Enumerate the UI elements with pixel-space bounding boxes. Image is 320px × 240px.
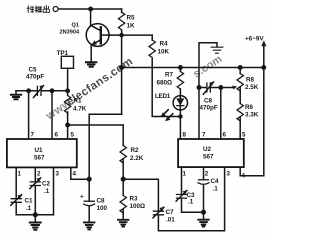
svg-text:R7: R7 <box>165 72 174 79</box>
wire: U2 pin 7 up to ground <box>199 43 217 139</box>
svg-text:3: 3 <box>227 171 231 178</box>
svg-text:C8: C8 <box>97 198 106 205</box>
node: R8 top on rail <box>239 66 242 69</box>
node: pin6 tap on C8 wire <box>219 86 222 89</box>
svg-text:4: 4 <box>73 171 77 178</box>
node: R7 top on rail <box>179 66 182 69</box>
wire: U2 pin 1 drop <box>181 167 183 194</box>
wire: +V rail <box>122 67 264 69</box>
svg-text:R5: R5 <box>127 15 136 22</box>
resistor R4 <box>149 35 155 59</box>
svg-text:6: 6 <box>223 132 227 139</box>
node: R1 bottom / pin5 junction <box>66 123 69 126</box>
svg-text:+6~9V: +6~9V <box>245 36 264 43</box>
ground (U1 bypass) <box>30 223 41 230</box>
wire: emitter drop <box>90 46 92 62</box>
wire: C2 bottom to ground <box>34 186 36 222</box>
node: pin4/C8 junction <box>87 177 91 181</box>
svg-text:.1: .1 <box>26 205 32 212</box>
svg-text:470pF: 470pF <box>200 105 218 112</box>
wire: C5 net right <box>42 90 68 92</box>
IC U1 567 <box>7 139 77 167</box>
svg-text:2N3904: 2N3904 <box>60 30 80 36</box>
capacitor C5 470pF (variable) <box>34 86 44 98</box>
svg-text:C2: C2 <box>42 181 51 188</box>
svg-text:R8: R8 <box>246 77 255 84</box>
svg-text:2: 2 <box>205 171 209 178</box>
terminal: low output (低输出) <box>27 6 58 13</box>
wire: output line to R5 <box>58 8 121 10</box>
svg-text:R3: R3 <box>130 196 139 203</box>
wire: horizontal junction line y=125 <box>68 124 124 126</box>
svg-text:R4: R4 <box>160 41 169 48</box>
resistor R7 680ohm <box>177 68 183 96</box>
svg-text:7: 7 <box>31 132 35 139</box>
wire: node down to rail <box>121 35 123 114</box>
svg-text:10K: 10K <box>158 49 170 56</box>
wire: feeder down to U1 pin4 level <box>88 125 90 201</box>
capacitor C1 .1 (variable) <box>11 195 22 206</box>
node: C3/C4 ground junction <box>202 210 206 214</box>
svg-text:LED1: LED1 <box>155 93 171 100</box>
wire: TP1 to C5 net <box>67 68 69 91</box>
svg-text:6: 6 <box>55 132 59 139</box>
ground (R3 bottom) <box>118 220 128 227</box>
svg-text:C8: C8 <box>204 98 213 105</box>
wire: ground bus <box>16 214 53 216</box>
svg-text:5: 5 <box>71 132 75 139</box>
wire: down to U1 pin 6 <box>51 91 53 139</box>
transistor Q1 2N3904 <box>86 24 110 47</box>
svg-text:5: 5 <box>242 132 246 139</box>
wire: U1 pin 3 to ground bus <box>53 167 55 214</box>
wire: R4 bottom down across rail to pin8 net <box>152 59 180 117</box>
resistor R5 <box>118 9 124 35</box>
svg-text:.1: .1 <box>44 188 50 195</box>
wire: U2 pin 4 loop to +V <box>240 68 264 176</box>
svg-text:1: 1 <box>183 171 187 178</box>
node: pin7 tap <box>27 89 30 92</box>
node: rail right end <box>262 66 265 69</box>
node: base/R5/R4 junction <box>120 34 123 37</box>
wire: collector drop <box>90 9 92 25</box>
wire: R8 to R6 <box>239 88 241 104</box>
node: pin8/R4 junction <box>179 115 182 118</box>
svg-text:3.3K: 3.3K <box>245 112 259 119</box>
wire: down to U2 pin 6 <box>220 88 222 140</box>
svg-text:2.5K: 2.5K <box>245 84 259 91</box>
node: R1 top / TP1 junction <box>66 89 69 92</box>
wire: to C8 cap <box>199 87 206 89</box>
capacitor C3 .1 (variable) <box>176 191 187 202</box>
svg-text:1K: 1K <box>127 23 136 30</box>
wire: junction right to C7 <box>123 179 158 211</box>
svg-text:470pF: 470pF <box>26 74 44 81</box>
svg-text:Q1: Q1 <box>72 23 79 29</box>
svg-text:567: 567 <box>203 154 214 161</box>
node: ground bus junction <box>34 213 38 217</box>
wire: U1 pin 1 drop <box>15 167 17 198</box>
capacitor C8 100 (electrolytic) <box>84 201 95 206</box>
resistor R3 100ohm <box>120 179 126 219</box>
svg-text:1: 1 <box>18 171 22 178</box>
capacitor C7 .01 (variable) <box>153 207 164 218</box>
svg-text:8: 8 <box>183 132 187 139</box>
svg-text:.01: .01 <box>166 217 175 224</box>
svg-text:.1: .1 <box>188 199 194 206</box>
svg-text:+: + <box>80 194 84 201</box>
wire: jog from rail-node down-left to pin4 feeder <box>89 114 121 125</box>
wire: base to node <box>110 34 152 36</box>
ground (U2 pin2) <box>198 220 208 227</box>
capacitor C4 .1 <box>198 180 209 185</box>
ground (C8 bottom) <box>84 222 94 229</box>
resistor R6 3.3K <box>237 104 243 140</box>
svg-text:C5: C5 <box>29 67 38 74</box>
svg-text:680Ω: 680Ω <box>157 80 173 87</box>
svg-text:7: 7 <box>202 132 206 139</box>
node: R2/R3/C7 junction <box>121 177 125 181</box>
wire: U1 pin 4 to feeder <box>71 167 89 179</box>
wire: C1 bottom to ground bus <box>15 203 17 215</box>
svg-text:4.7K: 4.7K <box>73 106 87 113</box>
svg-text:R2: R2 <box>131 147 140 154</box>
wire: C8 bottom <box>88 206 90 222</box>
wire: U1 pin 2 drop <box>34 167 36 181</box>
node: pin6 tap <box>50 89 53 92</box>
svg-text:2.2K: 2.2K <box>130 155 144 162</box>
LED LED1 <box>161 96 187 121</box>
IC U2 567 <box>178 139 244 167</box>
svg-text:TP1: TP1 <box>57 50 69 57</box>
wire: C4 bottom to ground node <box>203 184 205 219</box>
capacitor C2 .1 (variable) <box>30 178 41 189</box>
test point TP1 <box>61 56 73 68</box>
svg-text:R6: R6 <box>245 104 254 111</box>
svg-text:C7: C7 <box>166 209 175 216</box>
supply +6~9V arrow <box>262 41 266 68</box>
ground (emitter) <box>86 62 96 66</box>
svg-text:100Ω: 100Ω <box>130 203 146 210</box>
svg-text:U2: U2 <box>203 146 212 153</box>
svg-text:C4: C4 <box>211 178 220 185</box>
wire: down to U1 pin 7 <box>28 91 30 139</box>
svg-text:U1: U1 <box>35 147 44 154</box>
wire: C3 bottom to pin2 node <box>182 198 204 212</box>
svg-text:C1: C1 <box>25 198 34 205</box>
svg-text:3: 3 <box>56 171 60 178</box>
svg-text:100: 100 <box>97 205 108 212</box>
svg-text:R1: R1 <box>74 98 83 105</box>
wire: C5 net left <box>16 90 37 92</box>
node: C8470 left junction <box>197 86 200 89</box>
resistor R1 4.7K <box>64 91 70 139</box>
wire: C8 right with wiper arrow into R8 <box>211 86 236 89</box>
svg-text:567: 567 <box>34 155 45 162</box>
wire: U2 pin 2 drop <box>203 167 205 180</box>
svg-text:.1: .1 <box>213 186 219 193</box>
resistor R2 2.2K <box>120 125 126 179</box>
ground (C5 left) <box>11 91 21 99</box>
wire: C7 bottom to U2 pin 3 <box>158 167 224 231</box>
wire: LED to U2 pin 8 <box>179 110 181 139</box>
node: rail start <box>120 66 124 70</box>
svg-text:2: 2 <box>37 171 41 178</box>
node: collector junction <box>89 7 92 10</box>
capacitor C8 470pF (variable) <box>203 82 213 94</box>
ground (inverted, pin7) <box>211 47 223 53</box>
resistor R8 2.5K (adjustable) <box>237 68 243 92</box>
